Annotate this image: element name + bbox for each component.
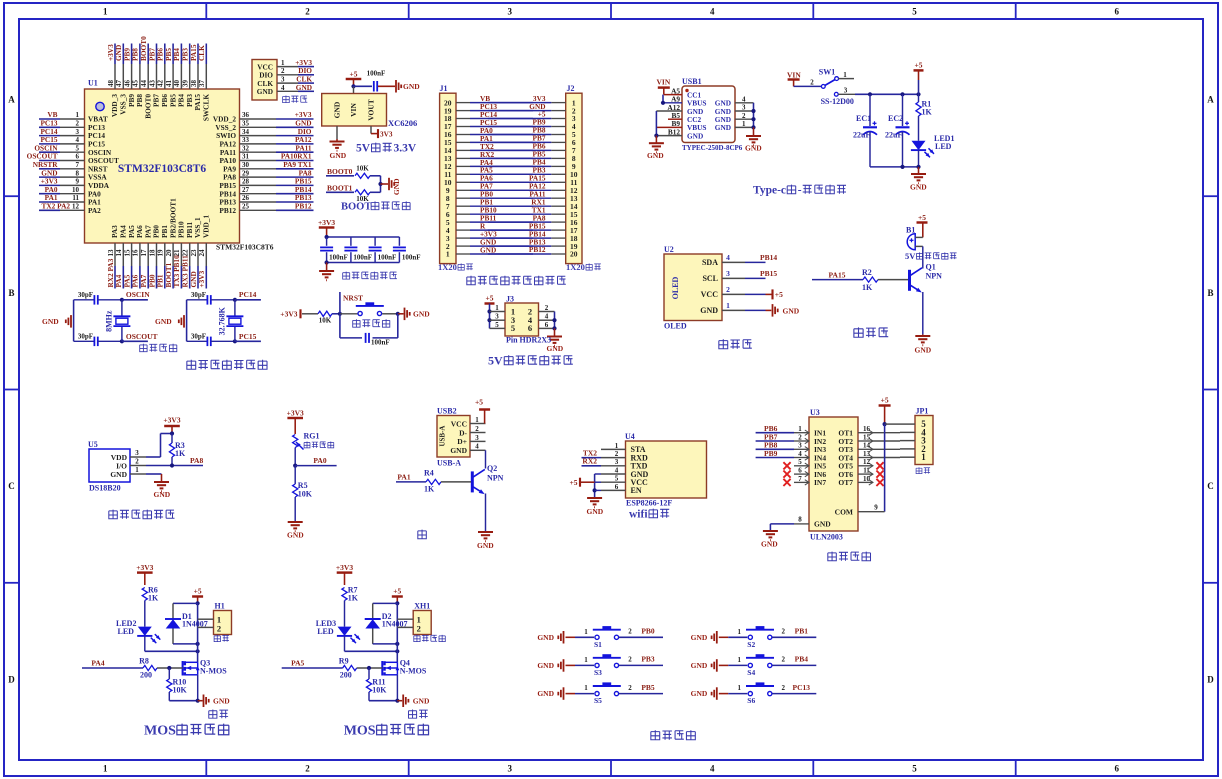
caption H1 label [214,635,220,642]
U3 pin 7 IN7 [783,475,809,486]
svg-text:U1: U1 [88,79,98,88]
push button S6 [728,682,774,705]
svg-text:2: 2 [810,78,814,86]
download port pin 4 GND net GND [257,83,314,96]
svg-text:ESP8266-12F: ESP8266-12F [626,499,672,508]
svg-text:RX2: RX2 [582,457,597,466]
node PB5 at S5 [619,683,663,694]
U1 pin 21 PB10 with net TX3 PB10 [172,221,185,288]
svg-text:D-: D- [459,428,467,437]
svg-text:GND: GND [333,101,342,118]
wire filter caps bottom rail [325,260,400,264]
svg-text:100nF: 100nF [367,70,386,78]
U1 pin 27 PB14 with net PB14 [219,185,313,198]
svg-text:PA15: PA15 [829,270,846,279]
J1 pin 5 net PB11 [446,214,533,227]
svg-text:10K: 10K [319,317,332,325]
svg-text:3: 3 [508,7,513,17]
svg-text:OT7: OT7 [838,478,853,487]
connector XH1 body [413,602,431,635]
J1 pin 20 net VB [444,94,533,107]
svg-text:2: 2 [628,628,632,636]
J2 pin 5 net PB8 [488,126,576,140]
svg-text:47: 47 [115,79,123,87]
svg-text:NPN: NPN [926,272,943,281]
push button reset switch [340,302,398,315]
wire +5 to U3 COM pin 9 [858,424,885,512]
J1 pin 3 net +3V3 [446,230,533,243]
wire LED3 to drain rail [345,636,400,654]
U3 pin 12 OT5 [858,458,884,469]
svg-text:XC6206: XC6206 [388,118,417,128]
U1 pin 22 PB11 with net RX3 PB11 [181,221,194,288]
svg-text:U2: U2 [664,245,674,254]
svg-text:SWCLK: SWCLK [202,94,211,121]
svg-text:2: 2 [76,120,80,128]
svg-text:43: 43 [148,80,156,88]
J1 pin 6 net PB10 [446,206,533,219]
U2 pin 3 SCL net PB15 [722,269,777,278]
svg-text:MOS: MOS [144,724,176,739]
display U2 OLED body [664,245,722,321]
J2 pin 19 net PB13 [488,237,578,251]
svg-text:2: 2 [628,656,632,664]
svg-text:SS-12D00: SS-12D00 [821,97,854,106]
ground at filter caps [319,263,334,281]
U3 pin 16 OT1 [858,425,900,435]
power +3V3 at Q3 circuit [136,563,153,585]
J3 pin 4 stub [539,313,555,321]
J2 pin 3 net +5 [488,110,576,124]
svg-text:15: 15 [863,433,871,441]
wire left rail 32.768K [186,300,188,342]
svg-text:5: 5 [912,764,917,774]
node PB0 at S1 [619,627,663,638]
svg-text:BOOT: BOOT [341,202,371,213]
ground side at S2 [691,631,729,644]
svg-text:MOS: MOS [344,724,376,739]
U1 pin 3 PC14 with net PC14 [39,127,105,140]
svg-text:1: 1 [738,628,742,636]
U3 pin 3 IN3 [756,441,809,452]
node PC15 [233,332,261,344]
svg-text:10K: 10K [356,164,369,172]
U3 pin 8 GND wire [770,516,809,531]
svg-text:1: 1 [843,71,847,79]
USB2 pin 4 stub [470,443,486,451]
svg-text:USB2: USB2 [437,407,457,416]
resistor R4 1K base [396,469,471,494]
svg-text:USB1: USB1 [682,77,702,86]
svg-text:STM32F103C8T6: STM32F103C8T6 [216,243,274,252]
J2 pin 1 net 3V3 [488,94,576,108]
JP1 pin 1 stub [900,456,915,458]
JP1 pin 2 stub [900,448,915,450]
svg-text:22uF: 22uF [853,131,870,140]
svg-text:2: 2 [782,684,786,692]
USB2 pin 1 stub [470,416,486,424]
svg-text:PB3: PB3 [641,655,655,664]
capacitor 100nF at regulator input [367,70,386,92]
svg-text:Q1: Q1 [926,263,936,272]
svg-text:CLK: CLK [197,45,206,61]
svg-text:GND: GND [687,131,703,140]
U1 pin 14 PA4 with net PA4 [114,225,127,289]
svg-text:30: 30 [242,161,250,169]
U1 pin 9 VDDA with net +3V3 [39,177,110,190]
ground left of USB1 [647,136,664,160]
svg-text:R4: R4 [424,469,434,478]
svg-text:5: 5 [615,475,619,483]
svg-text:A: A [8,95,15,105]
ground right of USB1 [745,127,762,152]
U1 pin 40 PB4 with net PB4 [172,44,185,107]
svg-text:100nF: 100nF [329,254,348,262]
U1 pin 6 OSCOUT with net OSCOUT [27,152,119,165]
svg-text:33: 33 [242,136,250,144]
J1 pin 19 net PC13 [444,102,533,115]
svg-text:4: 4 [76,136,80,144]
svg-text:+3V3: +3V3 [163,416,180,425]
svg-text:13: 13 [107,249,115,257]
capacitor 100nF filter #4 [393,237,421,263]
svg-text:1: 1 [281,59,285,67]
ground side at S3 [537,659,575,672]
svg-text:3: 3 [76,128,80,136]
ground at J3 [547,328,564,353]
svg-text:26: 26 [242,194,250,202]
U1 pin 31 PA10 with net PA10RX1 [220,152,314,165]
U1 pin 18 PB0 with net PB0 [147,225,160,289]
RG1 label photoresistor [304,442,310,448]
J2 pin 12 net PA12 [488,182,578,196]
svg-text:3: 3 [742,104,746,112]
svg-text:PA0: PA0 [313,456,326,465]
svg-text:16: 16 [132,249,140,257]
resistor 10K upper BOOT0 [355,164,381,178]
node PB3 at S3 [619,655,663,666]
push button S3 [575,654,621,677]
wire A5 to A9 tie [661,95,665,105]
svg-text:14: 14 [863,442,871,450]
svg-text:4: 4 [545,313,549,321]
svg-text:9: 9 [874,504,878,512]
svg-text:2: 2 [281,67,285,75]
capacitor EC1 22uF electrolytic [853,94,877,167]
svg-text:3: 3 [798,442,802,450]
power +5 at H1 [192,587,203,606]
capacitor 100nF filter #2 [344,237,372,263]
XH1 pin wires [397,603,413,662]
U5 pin 2 I/O net PA8 [130,456,203,468]
power +5 symbol at regulator [346,70,362,87]
U1 pin 28 PB15 with net PB15 [219,177,313,190]
svg-text:LED: LED [317,627,334,636]
power +3V3 at temp module [163,416,180,436]
node PA5 and resistor R9 200 [282,657,383,680]
svg-text:17: 17 [140,249,148,257]
regulator VOUT pin to 3V3 [371,126,393,138]
resistor R3 1K pullup [169,434,186,466]
svg-text:11: 11 [72,194,79,202]
U1 pin 34 SWIO with net DIO [216,127,313,140]
node PB1 at S2 [772,627,816,638]
module U4 ESP8266-12F body [625,432,707,498]
U1 pin 25 PB12 with net PB12 [219,202,313,215]
svg-text:R8: R8 [139,657,149,666]
resistor R6 1K [142,586,159,627]
connector USB2 USB-A body [437,407,470,458]
svg-text:46: 46 [123,80,131,88]
connector J3 HDR2X3 body [505,295,539,337]
svg-text:100nF: 100nF [353,254,372,262]
power GND side at reset [396,308,431,321]
svg-text:VCC: VCC [451,419,467,428]
svg-text:GND: GND [403,82,420,91]
ground side at S4 [691,659,729,672]
svg-text:PB12: PB12 [295,202,312,211]
svg-text:2: 2 [417,623,421,633]
power +5 at J3 [485,294,495,329]
svg-text:GND: GND [910,183,927,192]
U1 pin 26 PB13 with net PB13 [219,193,313,206]
U1 pin 39 PB3 with net PB3 [181,44,194,107]
node PB4 at S4 [772,655,816,666]
svg-text:PA8: PA8 [190,456,203,465]
H1 pin wires [198,603,214,662]
wire bottom rail power circuit [870,165,921,169]
capacitor 30pF top 32.768K [187,291,235,305]
connector JP1 motor body [915,407,933,465]
svg-text:25: 25 [242,203,250,211]
svg-text:GND: GND [155,317,172,326]
U1 pin 2 PC13 with net PC13 [39,119,105,132]
svg-text:200: 200 [140,670,152,679]
svg-text:1: 1 [738,656,742,664]
svg-text:GND: GND [296,83,312,92]
download port pin 3 CLK net CLK [257,75,314,88]
svg-text:45: 45 [132,80,140,88]
svg-text:1K: 1K [922,108,933,117]
wire Q3 source to ground rail [169,675,199,703]
wire Q1 emitter to ground [922,292,924,334]
U1 pin 35 VSS_2 with net GND [215,119,313,132]
U4 pin 2 stub [601,450,626,458]
svg-text:3V3: 3V3 [380,129,393,138]
svg-text:4: 4 [615,466,619,474]
svg-text:1: 1 [742,120,746,128]
svg-text:40: 40 [173,80,181,88]
U4 pin 3 stub [601,458,626,466]
wire +5 to JP1 pin 5 [885,423,900,425]
capacitor 30pF top 8MHz [74,291,122,305]
wire U4 GND pin down [593,474,602,497]
svg-text:+3V3: +3V3 [136,563,153,572]
U5 pin 3 VDD wire [130,434,172,458]
svg-text:PB15: PB15 [760,269,777,278]
svg-text:5: 5 [495,321,499,329]
svg-text:1: 1 [921,452,926,462]
svg-text:5: 5 [912,7,917,17]
svg-text:10: 10 [72,186,80,194]
svg-text:1K: 1K [424,485,435,494]
svg-text:GND: GND [691,689,708,698]
regulator U XC6206 body [322,94,387,127]
svg-text:GND: GND [700,306,718,315]
J3 pin 1 stub [490,304,506,312]
J1 pin 1 net GND [446,245,533,258]
svg-text:3.3V: 3.3V [394,143,417,155]
svg-text:VIN: VIN [657,78,671,87]
svg-text:31: 31 [242,153,250,161]
capacitor 100nF filter #3 [369,237,397,263]
svg-text:3: 3 [135,449,139,457]
connector J2 1x20 header body [566,84,582,264]
J2 pin 6 net PB7 [488,134,576,148]
svg-text:48: 48 [107,80,115,88]
power +5 at buzzer [917,213,928,237]
svg-text:6: 6 [798,467,802,475]
svg-text:GND: GND [42,317,59,326]
resistor R10 10K gate pulldown [167,668,188,701]
caption display screen [719,339,728,349]
svg-text:N-MOS: N-MOS [400,666,427,675]
svg-text:30pF: 30pF [191,333,206,341]
power +3V3 side at reset [280,309,300,318]
node PC13 at S6 [772,683,816,694]
svg-text:39: 39 [182,80,190,88]
svg-text:1: 1 [446,250,450,259]
connector download port body [252,60,277,101]
connector USB1 Type-C body [682,77,735,143]
USB1 pin 3 GND stub [735,104,754,112]
switch SW1 pin 3 [834,87,855,97]
svg-text:+5: +5 [194,587,202,596]
caption light [418,530,427,539]
download port pin 1 VCC net +3V3 [257,58,314,71]
J1 pin 12 net PA4 [444,158,533,171]
wire +5 to VIN and cap [351,84,372,93]
wire BOOT junction vertical [378,176,382,193]
J2 pin 11 net PA15 [488,174,578,188]
svg-text:13: 13 [863,450,871,458]
node OSCIN [120,290,150,302]
svg-text:PA2: PA2 [88,206,101,215]
svg-text:38: 38 [190,80,198,88]
svg-text:GND: GND [477,541,494,550]
svg-text:S1: S1 [594,640,602,649]
ground at photoresistor [287,522,304,540]
svg-text:PA5: PA5 [291,659,304,668]
J2 pin 20 net PB12 [488,245,578,259]
J1 pin 11 net PA5 [444,166,533,179]
diode D1 1N4007 flyback [165,603,208,646]
J2 pin 9 net PB4 [488,158,576,172]
svg-text:8MHz: 8MHz [104,310,113,332]
svg-text:1X20: 1X20 [438,262,457,272]
svg-text:18: 18 [148,249,156,257]
svg-text:J2: J2 [567,84,575,93]
svg-text:LED: LED [118,627,135,636]
caption buzzer [854,327,863,337]
U1 pin 10 PA0 with net PA0 [39,185,101,198]
ground at stepper [761,531,778,549]
svg-text:3: 3 [495,313,499,321]
U3 pin 10 OT7 [858,475,884,486]
svg-text:GND: GND [213,697,230,706]
svg-text:OLED: OLED [671,276,680,299]
svg-text:4: 4 [710,7,715,17]
svg-text:+5: +5 [775,290,783,299]
svg-text:S4: S4 [747,668,755,677]
svg-text:Q2: Q2 [487,464,497,473]
svg-text:30pF: 30pF [191,291,206,299]
svg-text:OSCIN: OSCIN [126,290,150,299]
transistor Q4 N-MOS [382,659,427,676]
svg-text:SW1: SW1 [819,68,835,77]
node OSCOUT [120,332,158,344]
svg-text:10K: 10K [372,686,387,695]
svg-text:2: 2 [782,628,786,636]
svg-text:PB14: PB14 [760,253,777,262]
svg-text:U5: U5 [88,440,98,449]
svg-text:D: D [1207,674,1214,684]
J3 pin 6 stub [539,321,555,329]
U1 pin 45 PB8 with net PB8 [131,44,144,107]
svg-text:GND: GND [814,520,831,529]
capacitor 100nF filter #1 [320,237,348,263]
svg-text:4: 4 [798,450,802,458]
svg-text:NPN: NPN [487,474,504,483]
svg-text:2: 2 [615,450,619,458]
svg-text:Pin HDR2X3: Pin HDR2X3 [506,336,551,345]
svg-text:GND: GND [287,531,304,540]
U1 pin 4 PC15 with net PC15 [39,135,105,148]
svg-text:PB5: PB5 [641,683,655,692]
svg-text:ULN2003: ULN2003 [810,533,843,542]
svg-text:+3V3: +3V3 [336,563,353,572]
crystal 8MHz [104,300,130,342]
resistor 10K lower BOOT1 [355,190,381,203]
U1 pin 17 PA7 with net PA7 [139,225,152,289]
sensor U5 DS18B20 body [88,440,130,482]
U1 pin 36 VDD_2 with net +3V3 [213,110,314,123]
svg-text:4: 4 [475,443,479,451]
svg-text:PB12: PB12 [529,245,546,254]
svg-text:D+: D+ [457,437,467,446]
U2 pin 4 SDA net PB14 [722,253,777,262]
U1 pin 5 OSCIN with net OSCIN [34,143,111,156]
svg-text:2: 2 [135,458,139,466]
svg-text:+5: +5 [918,213,926,222]
U1 pin 8 VSSA with net GND [39,168,107,181]
U3 pin 1 IN1 [756,424,809,435]
svg-text:100nF: 100nF [378,254,397,262]
power +5 at USB2 [475,398,490,424]
svg-text:100nF: 100nF [371,339,390,347]
resistor R11 10K gate pulldown [366,668,387,701]
svg-text:2: 2 [545,304,549,312]
crystal 32.768K [217,300,243,342]
capacitor 30pF bottom 8MHz [74,333,122,347]
svg-text:36: 36 [242,111,250,119]
push button S4 [728,654,774,677]
svg-text:6: 6 [1115,7,1120,17]
svg-text:1X20: 1X20 [566,262,585,272]
diode D2 1N4007 flyback [365,603,408,646]
svg-text:PA1: PA1 [397,472,410,481]
J3 pin 2 stub [539,304,555,312]
